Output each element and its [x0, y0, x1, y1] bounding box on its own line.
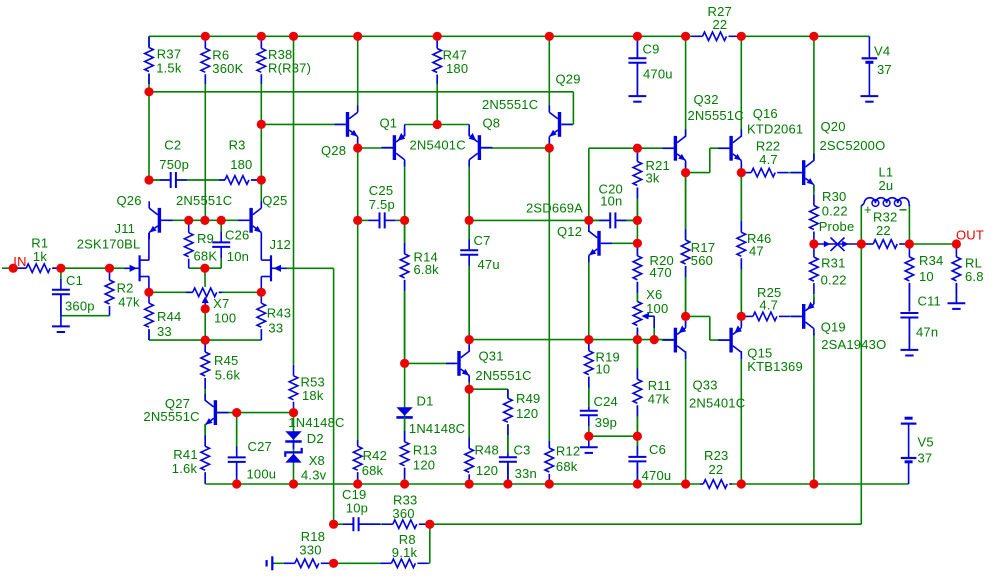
- wire R44 corner: [149, 328, 205, 340]
- wire Q15 collector column: [740, 351, 742, 484]
- wire Q33 emitter lead: [685, 316, 687, 326]
- svg-text:C6: C6: [649, 442, 666, 457]
- wire R14 D1 R13 column: [404, 220, 406, 484]
- svg-text:10: 10: [919, 269, 934, 284]
- wire Q28 base: [261, 123, 346, 125]
- svg-text:360K: 360K: [212, 61, 243, 76]
- svg-text:22: 22: [713, 17, 728, 32]
- resistor R21: [632, 148, 670, 220]
- resistor R11: [632, 340, 671, 437]
- svg-text:1.6k: 1.6k: [172, 461, 198, 476]
- wire Q31 collector: [468, 340, 470, 352]
- wire mid column R21 R20 X6 R11 C6: [636, 148, 638, 484]
- wire Q28 emitter lead: [357, 139, 359, 148]
- transistor Q32: [662, 92, 743, 167]
- svg-text:470u: 470u: [643, 67, 673, 82]
- svg-text:R12: R12: [556, 444, 580, 459]
- wire L1 left stub: [860, 206, 862, 245]
- resistor R22: [741, 138, 802, 178]
- resistor R38: [256, 36, 311, 84]
- capacitor C1: [52, 268, 95, 316]
- wire C24 node row: [589, 435, 638, 437]
- svg-text:1N4148C: 1N4148C: [409, 421, 465, 436]
- resistor R33: [380, 493, 430, 530]
- svg-text:100u: 100u: [247, 467, 277, 482]
- resistor R25: [741, 285, 802, 322]
- wire C2 R3 row: [149, 179, 261, 181]
- svg-text:R31: R31: [821, 255, 845, 270]
- transistor Q20: [791, 119, 886, 192]
- wire Q20 collector column: [813, 36, 815, 161]
- wire Q33 emitter step: [686, 316, 730, 340]
- wire input: [2, 267, 124, 269]
- wire D2 X8 column: [293, 413, 295, 484]
- capacitor C24: [580, 394, 618, 436]
- wire Q12 base: [602, 242, 637, 244]
- svg-text:R2: R2: [117, 280, 134, 295]
- wire C7 column: [468, 220, 470, 339]
- wire R38 column: [260, 36, 262, 124]
- svg-text:+: +: [864, 202, 872, 217]
- svg-text:Probe: Probe: [819, 219, 855, 234]
- battery V5: [901, 418, 934, 484]
- wire R6 column: [204, 36, 206, 220]
- resistor R46: [736, 173, 772, 317]
- svg-text:2u: 2u: [879, 178, 894, 193]
- potentiometer X6: [632, 287, 668, 339]
- svg-text:R42: R42: [363, 448, 387, 463]
- resistor R45: [200, 340, 241, 401]
- svg-text:J11: J11: [115, 221, 136, 236]
- svg-text:OUT: OUT: [956, 228, 984, 243]
- wire Q25 collector lead: [260, 180, 262, 205]
- svg-text:1k: 1k: [33, 249, 47, 264]
- svg-text:KTD2061: KTD2061: [747, 121, 803, 136]
- svg-text:C7: C7: [474, 233, 491, 248]
- svg-text:330: 330: [299, 542, 321, 557]
- svg-text:120: 120: [413, 458, 435, 473]
- transistor Q31: [446, 344, 532, 383]
- svg-text:33: 33: [268, 321, 283, 336]
- wire top +37V rail: [149, 35, 686, 37]
- potentiometer X7: [186, 287, 236, 326]
- wire C27 column: [236, 413, 238, 484]
- svg-text:R3: R3: [229, 137, 246, 152]
- svg-text:Q29: Q29: [556, 72, 581, 87]
- ground for C24: [580, 436, 598, 453]
- svg-text:22: 22: [709, 462, 724, 477]
- resistor R23: [700, 448, 732, 489]
- svg-text:Q25: Q25: [262, 193, 287, 208]
- wire X6 wiper stem: [653, 318, 655, 340]
- wire R49 row: [469, 388, 508, 390]
- resistor R13: [399, 417, 437, 484]
- svg-text:39p: 39p: [595, 415, 617, 430]
- wire Q1 collector column: [404, 162, 406, 220]
- resistor R2: [104, 268, 140, 316]
- svg-text:470u: 470u: [642, 468, 672, 483]
- svg-text:2N5551C: 2N5551C: [482, 97, 538, 112]
- svg-text:2N5401C: 2N5401C: [410, 138, 466, 153]
- wire Q28 emitter to Q1 base: [358, 147, 395, 149]
- svg-text:2SA1943O: 2SA1943O: [821, 337, 886, 352]
- resistor R1: [13, 236, 61, 274]
- wire feedback row: [430, 523, 862, 525]
- resistor R53: [288, 362, 325, 413]
- wire bottom rail left: [205, 483, 700, 485]
- capacitor C25: [358, 183, 405, 228]
- svg-text:120: 120: [516, 406, 538, 421]
- svg-text:Q19: Q19: [821, 320, 846, 335]
- svg-text:100: 100: [214, 311, 236, 326]
- jfet J12: [261, 237, 291, 281]
- svg-text:Q1: Q1: [380, 116, 398, 131]
- resistor R6: [200, 36, 244, 84]
- wire R37 column: [148, 36, 150, 180]
- wire J12 drain: [260, 233, 262, 260]
- zener X8: [285, 442, 326, 483]
- svg-text:3k: 3k: [646, 171, 660, 186]
- svg-text:180: 180: [446, 61, 468, 76]
- svg-text:100: 100: [646, 301, 668, 316]
- svg-text:0.22: 0.22: [821, 273, 847, 288]
- resistor R19: [583, 340, 620, 407]
- svg-text:4.3v: 4.3v: [301, 467, 327, 482]
- wire Q27 emitter R41 column: [204, 424, 206, 484]
- svg-text:22: 22: [876, 223, 891, 238]
- ground for C9: [629, 96, 647, 102]
- svg-text:10p: 10p: [346, 500, 368, 515]
- svg-text:X8: X8: [309, 453, 325, 468]
- wire J11 drain: [148, 233, 150, 260]
- resistor R44: [144, 292, 182, 340]
- wire Q12 collector corner: [589, 148, 638, 220]
- resistor R8: [334, 532, 430, 569]
- resistor R42: [352, 440, 387, 484]
- wire top rail right section: [741, 35, 869, 37]
- resistor R18: [274, 529, 334, 569]
- svg-text:Q33: Q33: [693, 378, 718, 393]
- svg-text:2N5551C: 2N5551C: [475, 368, 531, 383]
- capacitor C11: [900, 294, 941, 350]
- resistor R47: [432, 36, 468, 84]
- wire R43 corner: [205, 328, 261, 340]
- wire R46 column: [740, 173, 742, 317]
- resistor R12: [544, 441, 580, 484]
- resistor R20: [632, 243, 674, 301]
- svg-text:68k: 68k: [556, 459, 578, 474]
- wire bottom rail right: [732, 483, 909, 485]
- svg-text:C9: C9: [643, 42, 660, 57]
- svg-text:R30: R30: [822, 189, 846, 204]
- svg-text:47k: 47k: [648, 392, 670, 407]
- wire long left column: [293, 36, 295, 362]
- svg-text:7.5p: 7.5p: [369, 197, 395, 212]
- wire Q29 collector column: [548, 36, 550, 112]
- wire X7 row: [149, 291, 261, 293]
- capacitor C26: [212, 220, 249, 268]
- transistor Q16: [718, 106, 803, 167]
- svg-text:37: 37: [918, 451, 933, 466]
- capacitor C19: [334, 487, 380, 531]
- svg-text:R34: R34: [919, 253, 943, 268]
- svg-text:X7: X7: [213, 296, 229, 311]
- svg-text:2N5551C: 2N5551C: [143, 409, 199, 424]
- transistor Q25: [238, 193, 287, 239]
- svg-text:10n: 10n: [600, 194, 622, 209]
- svg-text:33: 33: [157, 324, 172, 339]
- wire Q8 emitter lead: [468, 125, 470, 137]
- svg-text:C2: C2: [164, 137, 181, 152]
- wire Q12 collector lead: [588, 220, 590, 232]
- wire feedback column: [860, 244, 862, 524]
- svg-text:D2: D2: [307, 431, 324, 446]
- svg-text:360p: 360p: [65, 299, 95, 314]
- diode D1: [396, 394, 465, 436]
- svg-text:R49: R49: [516, 391, 540, 406]
- current probe: [814, 238, 861, 251]
- svg-text:33n: 33n: [515, 466, 537, 481]
- svg-text:C24: C24: [594, 394, 618, 409]
- svg-text:37: 37: [877, 62, 892, 77]
- transistor Q29: [482, 72, 581, 144]
- svg-text:KTB1369: KTB1369: [747, 359, 803, 374]
- resistor R34: [904, 244, 943, 313]
- wire Q15 emitter lead: [740, 316, 742, 326]
- wire R38 node to C2 row: [260, 124, 262, 180]
- transistor Q27: [143, 394, 228, 432]
- wire Q32 emitter step: [686, 148, 731, 172]
- inductor L1: [861, 165, 909, 207]
- svg-text:1N4148C: 1N4148C: [288, 415, 344, 430]
- svg-text:18k: 18k: [302, 388, 324, 403]
- wire X7 wiper to R44 R43 node: [204, 309, 206, 340]
- svg-text:Q12: Q12: [557, 224, 582, 239]
- svg-text:47: 47: [749, 244, 764, 259]
- svg-text:C26: C26: [225, 228, 249, 243]
- resistor R48: [464, 389, 499, 484]
- transistor Q33: [662, 321, 745, 410]
- wire R9 node to X7 wiper: [204, 268, 206, 296]
- resistor R3: [219, 137, 261, 185]
- wire Q1 Q8 emitter bridge: [405, 124, 470, 126]
- svg-text:2N5551C: 2N5551C: [176, 193, 232, 208]
- jfet J11: [77, 221, 150, 281]
- ground for V4: [861, 96, 879, 102]
- capacitor C3: [499, 442, 537, 484]
- svg-text:470: 470: [650, 265, 672, 280]
- resistor R43: [256, 292, 291, 340]
- svg-text:2N5401C: 2N5401C: [689, 396, 745, 411]
- wire Q29 emitter lead: [548, 139, 550, 148]
- svg-text:C11: C11: [918, 294, 941, 309]
- svg-text:Q8: Q8: [483, 116, 501, 131]
- svg-text:360: 360: [392, 506, 414, 521]
- svg-text:6.8k: 6.8k: [414, 262, 440, 277]
- battery V4: [862, 36, 892, 96]
- svg-text:180: 180: [230, 157, 252, 172]
- wire Q31 emitter R48 column: [468, 376, 470, 485]
- resistor R14: [399, 220, 439, 363]
- resistor R41: [172, 424, 211, 484]
- wire C7 C20 row: [469, 219, 589, 221]
- resistor R17: [680, 173, 715, 317]
- svg-text:560: 560: [691, 253, 713, 268]
- svg-text:R23: R23: [704, 448, 728, 463]
- wire Q31 base row: [405, 362, 455, 364]
- wire R17 column: [685, 173, 687, 317]
- capacitor C6: [628, 436, 671, 484]
- svg-text:R9: R9: [197, 231, 214, 246]
- capacitor C9: [628, 36, 672, 96]
- wire R49 C3 column: [507, 389, 509, 484]
- svg-text:750p: 750p: [159, 157, 189, 172]
- svg-text:R45: R45: [214, 353, 238, 368]
- wire J11 source: [148, 277, 150, 293]
- wire Q16 collector column: [740, 36, 742, 137]
- ground for C1: [52, 295, 70, 332]
- wire Q1 emitter lead: [404, 125, 406, 137]
- wire R45 column: [204, 340, 206, 401]
- svg-text:R48: R48: [475, 442, 499, 457]
- svg-text:2SC5200O: 2SC5200O: [820, 138, 886, 153]
- svg-text:C1: C1: [66, 273, 83, 288]
- wire R47 column: [436, 36, 438, 124]
- svg-text:Q26: Q26: [117, 193, 142, 208]
- wire Q32 base: [637, 147, 674, 149]
- resistor R37: [144, 36, 182, 84]
- svg-text:2SK170BL: 2SK170BL: [77, 237, 141, 252]
- transistor Q12: [526, 201, 612, 263]
- resistor R9: [183, 220, 217, 268]
- svg-text:10n: 10n: [227, 249, 249, 264]
- wire L1 right stub: [908, 206, 910, 245]
- svg-text:Q32: Q32: [694, 92, 719, 107]
- wire J12 gate to feedback column: [286, 267, 334, 269]
- transistor Q15: [718, 321, 803, 374]
- transistor Q1: [380, 116, 466, 167]
- wire C25 to R42 column: [357, 220, 359, 484]
- svg-text:Q31: Q31: [479, 349, 504, 364]
- wire R19 column: [588, 340, 590, 407]
- wire Q8 collector column: [468, 162, 470, 220]
- resistor R27: [686, 4, 742, 42]
- wire Q32 emitter lead: [685, 163, 687, 173]
- svg-text:68k: 68k: [362, 463, 384, 478]
- wire Q16 emitter lead: [740, 163, 742, 173]
- svg-text:V4: V4: [874, 43, 890, 58]
- transistor Q28: [321, 105, 358, 158]
- port OUT label: [956, 228, 984, 243]
- svg-text:Q20: Q20: [821, 119, 846, 134]
- svg-text:10: 10: [596, 362, 611, 377]
- svg-text:Q28: Q28: [321, 143, 346, 158]
- wire Q19 collector column: [813, 333, 815, 484]
- wire output row: [909, 243, 956, 245]
- svg-text:0.22: 0.22: [822, 204, 848, 219]
- svg-text:IN: IN: [13, 254, 26, 269]
- resistor R30: [809, 185, 855, 244]
- wire Q12 emitter column: [588, 256, 590, 340]
- wire feedback left column: [333, 268, 335, 524]
- wire J12 source: [260, 277, 262, 293]
- wire C1 R2 bottom: [61, 315, 110, 317]
- resistor R31: [809, 244, 847, 301]
- wire Q8 base to Q29 emitter: [481, 147, 549, 149]
- svg-text:120: 120: [476, 463, 498, 478]
- svg-text:J12: J12: [270, 237, 292, 252]
- svg-text:47u: 47u: [478, 257, 500, 272]
- ground for C11: [901, 350, 919, 356]
- wire R9 C26 bottom row: [189, 267, 222, 269]
- wire C20 row: [589, 219, 638, 221]
- wire Q28 emitter to C25: [357, 148, 359, 220]
- svg-text:4.7: 4.7: [759, 152, 778, 167]
- wire Q27 base row: [216, 412, 293, 414]
- svg-text:6.8: 6.8: [965, 269, 984, 284]
- capacitor C20: [589, 182, 638, 229]
- svg-text:R41: R41: [173, 447, 197, 462]
- transistor Q26: [117, 193, 233, 239]
- capacitor C2: [149, 137, 219, 188]
- transistor Q19: [791, 297, 887, 351]
- resistor R32: [861, 202, 909, 249]
- svg-text:9.1k: 9.1k: [392, 545, 418, 560]
- port IN label: [13, 254, 26, 269]
- resistor R49: [503, 389, 541, 453]
- transistor Q8: [469, 116, 501, 167]
- svg-text:R44: R44: [157, 309, 181, 324]
- svg-text:47k: 47k: [118, 294, 140, 309]
- capacitor C27: [228, 413, 277, 484]
- svg-text:R13: R13: [413, 442, 437, 457]
- svg-text:2N5551C: 2N5551C: [688, 108, 744, 123]
- ground for R18: [267, 556, 274, 570]
- svg-text:5.6k: 5.6k: [215, 367, 241, 382]
- svg-text:2SD669A: 2SD669A: [526, 201, 583, 216]
- svg-text:C3: C3: [514, 442, 531, 457]
- wire Q33 collector column: [685, 351, 687, 484]
- diode D2: [285, 415, 344, 446]
- svg-text:R37: R37: [157, 47, 181, 62]
- svg-text:R(R37): R(R37): [268, 61, 311, 76]
- svg-text:68K: 68K: [194, 249, 218, 264]
- svg-text:V5: V5: [918, 435, 934, 450]
- wire Q32 collector column: [685, 36, 687, 137]
- svg-text:1.5k: 1.5k: [156, 60, 182, 75]
- wire LTP base row: [168, 219, 242, 221]
- svg-text:R43: R43: [267, 305, 291, 320]
- ground for RL: [948, 303, 966, 309]
- wire bootstrap rail: [149, 92, 573, 125]
- svg-text:D1: D1: [417, 394, 434, 409]
- svg-text:4.7: 4.7: [759, 298, 778, 313]
- wire Q29 node to R12: [548, 148, 550, 448]
- svg-text:C27: C27: [248, 439, 272, 454]
- resistor RL: [951, 244, 984, 303]
- svg-text:Q16: Q16: [753, 106, 778, 121]
- wire bias rail: [469, 339, 674, 341]
- capacitor C7: [460, 220, 500, 339]
- svg-text:47n: 47n: [916, 325, 938, 340]
- wire R8 right riser: [429, 524, 431, 563]
- wire Q28 collector column: [357, 36, 359, 110]
